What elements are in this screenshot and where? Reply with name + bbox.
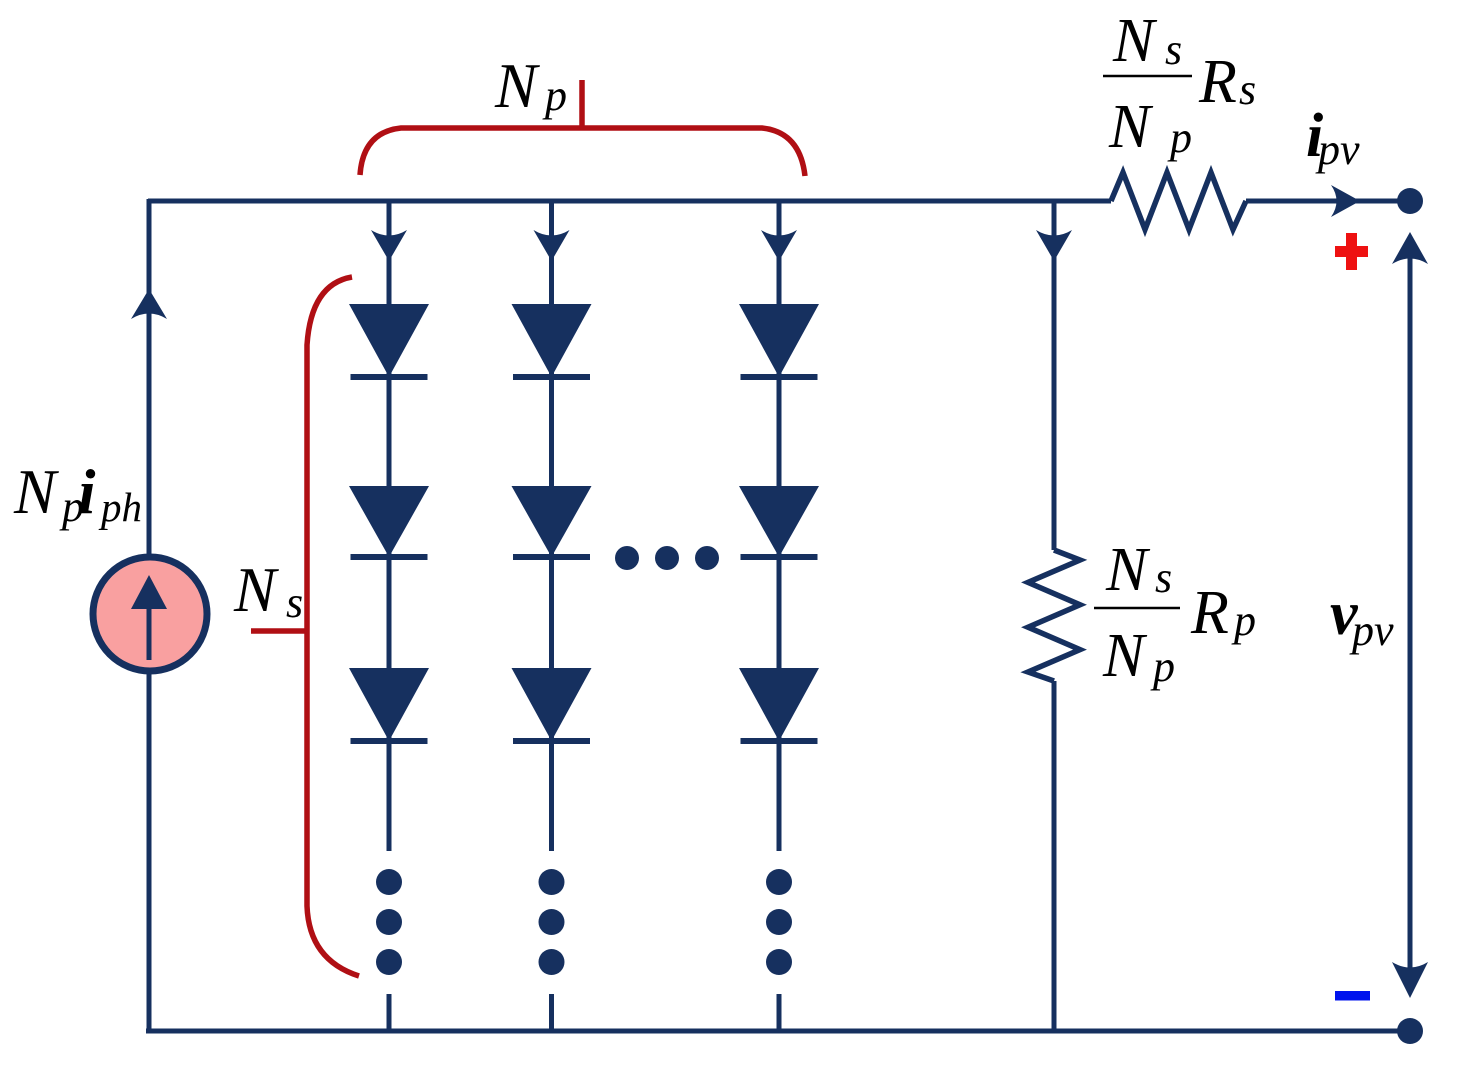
svg-text:p: p	[1150, 642, 1175, 691]
svg-text:N: N	[494, 51, 540, 121]
svg-text:R: R	[1198, 48, 1237, 116]
svg-text:ph: ph	[98, 484, 142, 530]
svg-text:N: N	[13, 457, 59, 527]
svg-text:s: s	[1165, 25, 1182, 74]
svg-text:N: N	[1102, 622, 1148, 690]
svg-text:pv: pv	[1349, 606, 1394, 655]
svg-text:N: N	[1105, 536, 1151, 604]
svg-text:pv: pv	[1315, 125, 1360, 174]
svg-text:i: i	[78, 457, 96, 527]
svg-text:p: p	[1167, 113, 1192, 162]
svg-text:R: R	[1190, 579, 1229, 647]
svg-text:p: p	[1231, 596, 1256, 645]
svg-text:s: s	[1155, 553, 1172, 602]
svg-text:s: s	[1239, 65, 1256, 114]
svg-text:s: s	[286, 578, 303, 627]
svg-text:N: N	[233, 555, 279, 625]
svg-text:p: p	[542, 71, 567, 120]
svg-text:N: N	[1112, 7, 1158, 75]
svg-text:N: N	[1108, 93, 1154, 161]
